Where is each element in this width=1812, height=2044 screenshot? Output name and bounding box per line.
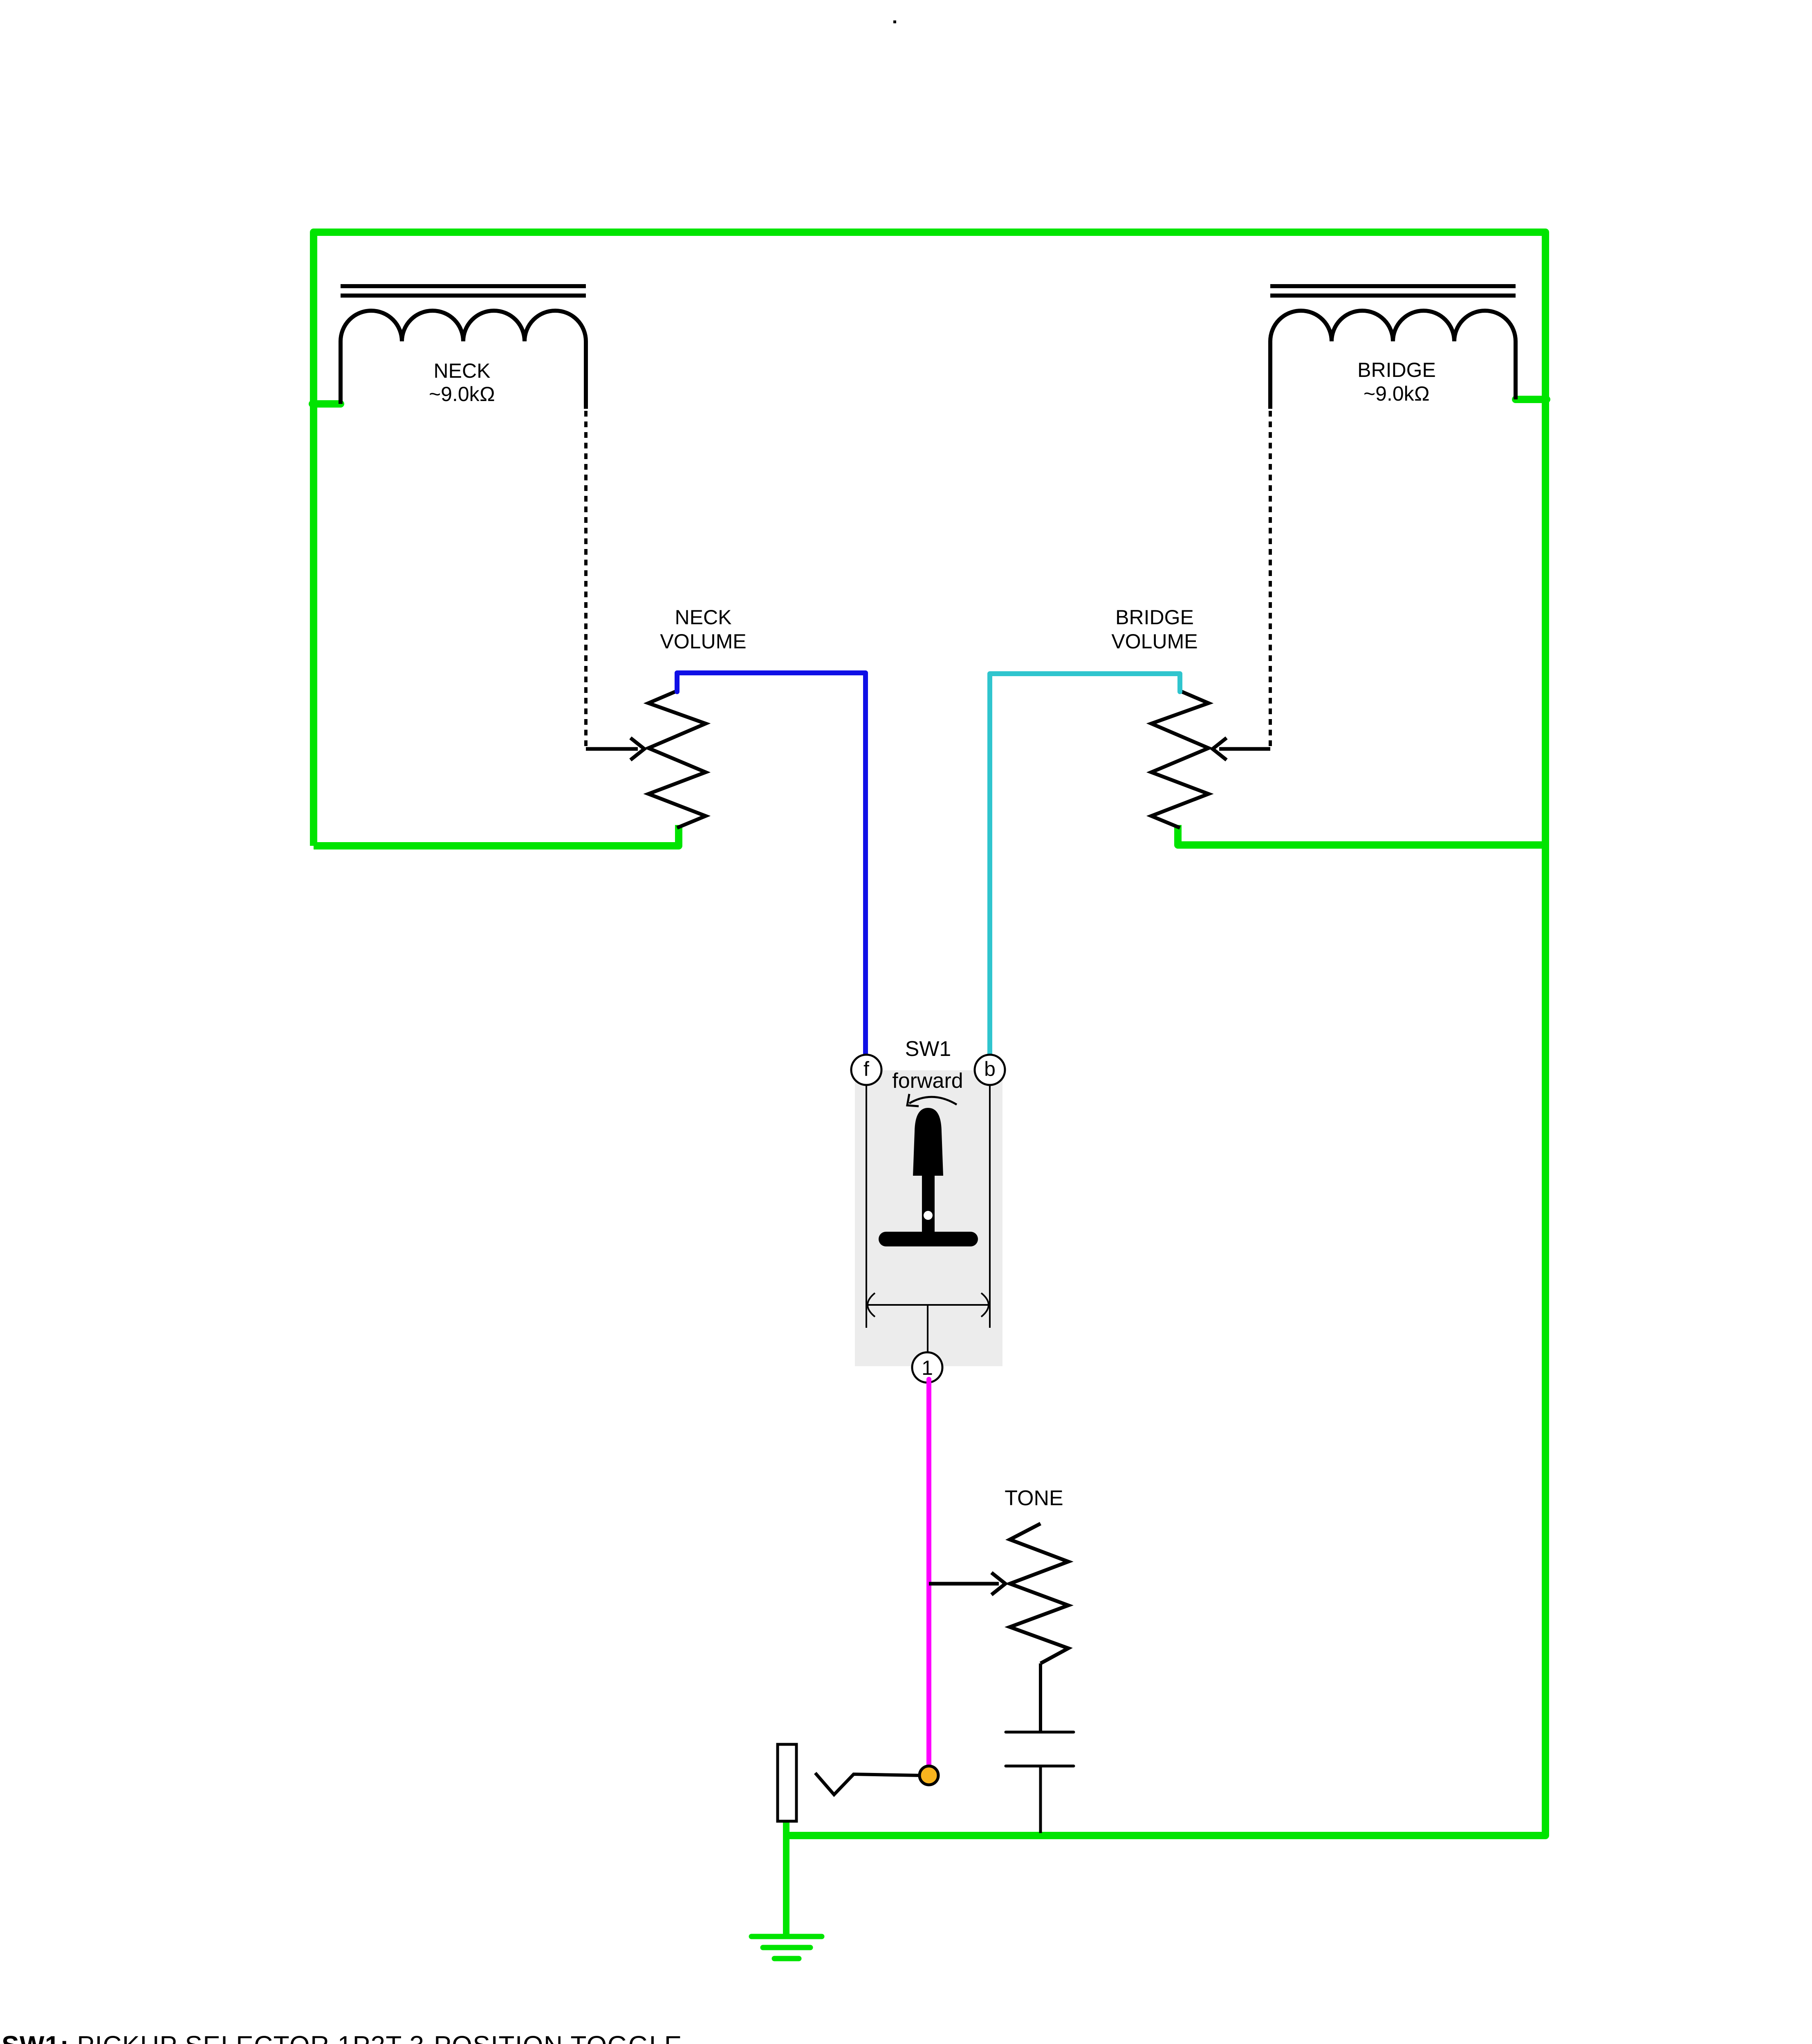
wire dashed bridge pickup to pot wiper [1269,411,1272,749]
potentiometer BRIDGE VOLUME resistor [1151,691,1209,828]
terminal b [975,1055,1005,1085]
output jack body [778,1744,796,1821]
pickup BRIDGE coil [1270,311,1516,409]
svg-text:VOLUME: VOLUME [660,630,746,653]
potentiometer TONE resistor [1010,1524,1068,1663]
SW1 terminal line f [866,1085,867,1328]
wire green main loop [314,232,1545,1836]
capacitor C1 plate bottom [1006,1765,1074,1768]
potentiometer NECK VOLUME resistor [648,691,706,828]
svg-text:BRIDGE: BRIDGE [1115,606,1194,629]
output jack tip contact [815,1773,920,1795]
TONE wiper arrow [929,1582,999,1586]
SW1 terminal line b [989,1085,991,1328]
SW1 pivot dot [924,1211,933,1220]
svg-text:b: b [984,1058,996,1080]
SW1 common stem line [927,1305,928,1352]
svg-text:SW1: SW1 [905,1037,951,1061]
wire green neck-pot bottom [314,825,679,846]
svg-text:NECK: NECK [675,606,732,629]
wire magenta SW1 to jack [926,1379,931,1776]
wire green jack to ground [783,1820,789,1936]
wire TONE to capacitor [1039,1663,1042,1731]
svg-text:NECK: NECK [434,359,491,382]
SW1 toggle knob [913,1108,943,1176]
pickup BRIDGE core [1270,284,1516,288]
svg-text:TONE: TONE [1005,1486,1063,1510]
solder joint [919,1766,938,1785]
wire capacitor to ground bus [1039,1766,1042,1833]
terminal 1 [912,1352,942,1383]
SW1 toggle stem [922,1172,935,1239]
wire green bridge-pot bottom [1178,825,1545,845]
wire green neck pickup stub [312,400,341,408]
wire blue neck volume to SW1 f [677,673,866,1057]
svg-text:~9.0kΩ: ~9.0kΩ [429,383,495,406]
capacitor C1 plate top [1006,1731,1074,1734]
wiper arrow neck [586,747,638,751]
switch SW1 body [855,1070,1002,1366]
svg-text:VOLUME: VOLUME [1111,630,1198,653]
pickup NECK core [341,284,586,288]
terminal f [851,1055,881,1085]
SW1 toggle T-bar [879,1232,978,1246]
wire green bridge pickup stub [1516,396,1547,403]
svg-text:~9.0kΩ: ~9.0kΩ [1363,382,1430,405]
svg-text:SW1: PICKUP SELECTOR 1P2T 3-PO: SW1: PICKUP SELECTOR 1P2T 3-POSITION TOG… [2,2031,682,2044]
svg-text:forward: forward [892,1069,963,1093]
pickup NECK coil [341,311,586,409]
ground [751,1936,822,1959]
wire dashed neck pickup to pot wiper [584,411,588,749]
arrow forward arc [909,1097,957,1105]
wiper arrow bridge [1219,747,1270,751]
svg-text:1: 1 [922,1356,933,1379]
wire cyan bridge volume to SW1 b [990,674,1180,1057]
svg-text:BRIDGE: BRIDGE [1357,359,1436,381]
SW1 travel dimension line [866,1304,990,1306]
svg-text:f: f [863,1058,869,1080]
stray dot top [893,20,896,23]
